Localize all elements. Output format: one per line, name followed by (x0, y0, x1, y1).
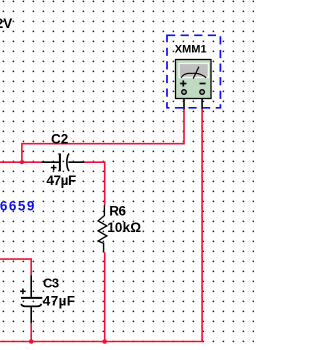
multimeter XMM1 (167, 35, 220, 109)
svg-text:10kΩ: 10kΩ (107, 220, 141, 235)
svg-text:C2: C2 (51, 131, 68, 146)
svg-text:R6: R6 (109, 203, 126, 218)
XMM1 dashed selection box (167, 35, 220, 108)
resistor R6 (98, 205, 107, 252)
C2 negative curved plate (67, 154, 69, 171)
wire: R6 bottom to ground bus (104, 252, 106, 341)
junction dot B (C3/bus) (29, 339, 34, 344)
wire: left node to C2 / junction (0, 161, 43, 163)
wire: junction up and across to XMM1 plus (22, 109, 184, 162)
XMM1 minus pin lead (201, 93, 203, 109)
XMM1 plus terminal (182, 90, 187, 95)
XMM1 scale arc (181, 73, 206, 78)
wire: left edge to C3 top (0, 259, 31, 275)
XMM1 display (180, 64, 208, 77)
wire: XMM1 minus down to bus (0, 109, 202, 342)
svg-text:C3: C3 (43, 275, 59, 290)
XMM1 minus terminal (200, 90, 205, 95)
svg-text:47µF: 47µF (46, 173, 76, 188)
svg-text:XMM1: XMM1 (175, 43, 207, 55)
XMM1 display frame (178, 63, 209, 78)
junction dot A (20, 160, 24, 164)
C3 bottom pin lead (30, 307, 32, 323)
C2 right pin lead (68, 161, 84, 163)
wire: C3 bottom to bus (30, 323, 32, 342)
wire: C2 right to R6 top (84, 162, 105, 205)
C3 positive plate (21, 297, 42, 299)
C2 positive plate (59, 154, 61, 172)
XMM1 needle (193, 67, 199, 79)
capacitor C3 (20, 275, 42, 323)
background grid (0, 0, 254, 350)
C3 top pin lead (30, 275, 32, 297)
svg-text:6659: 6659 (0, 198, 36, 213)
XMM1 minus mark (200, 83, 206, 85)
C2 left pin lead (42, 161, 59, 163)
XMM1 plus mark (180, 83, 186, 85)
XMM1 body (176, 60, 212, 99)
C3 polarity plus mark (20, 290, 26, 292)
XMM1 plus pin lead (183, 93, 185, 109)
svg-text:47µF: 47µF (43, 293, 76, 308)
C2 polarity plus mark (51, 167, 57, 169)
C3 negative curved plate (21, 304, 41, 307)
svg-text:2V: 2V (0, 16, 12, 31)
junction dot C (R6/bus) (102, 339, 107, 344)
capacitor C2 (42, 154, 85, 172)
